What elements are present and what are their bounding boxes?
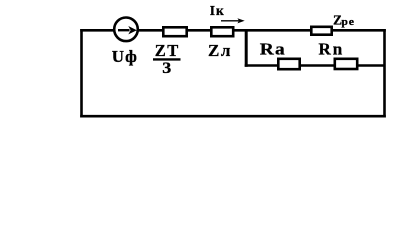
svg-text:Iк: Iк [210,3,225,18]
svg-text:Zл: Zл [208,41,232,60]
svg-text:Ra: Ra [260,40,286,59]
svg-text:Rn: Rn [319,40,345,59]
svg-text:ZT: ZT [155,41,180,60]
svg-text:pe: pe [341,16,354,28]
svg-text:3: 3 [162,60,171,77]
svg-text:Uф: Uф [112,47,138,66]
